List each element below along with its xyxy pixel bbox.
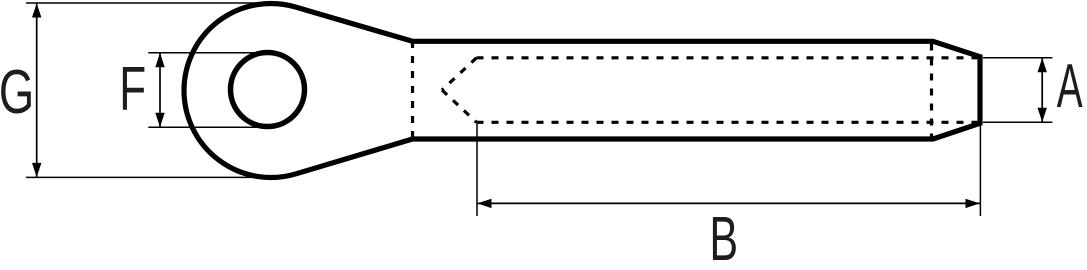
dimension B arrow right (966, 199, 980, 208)
dimension A line (1041, 58, 1043, 122)
dimension B extension line left (476, 122, 478, 216)
dimension A arrow up (1038, 58, 1047, 72)
dimension F arrow up (155, 53, 164, 67)
dimension B line (477, 202, 980, 204)
dimension B arrow left (477, 199, 491, 208)
dimension A extension line bottom (983, 121, 1052, 123)
hidden line: chamfer start (930, 44, 933, 140)
dimension A extension line top (983, 57, 1052, 59)
hidden line: drill cone upper (442, 58, 477, 90)
hidden line: drill cone lower (442, 90, 477, 122)
hidden line: bore bottom (477, 121, 979, 124)
dimension G arrow down (32, 163, 41, 177)
eye hole (231, 53, 305, 127)
dimension G extension line bottom (26, 176, 272, 178)
dimension F extension line bottom (148, 126, 267, 128)
dimension F line (159, 53, 161, 128)
dimension B extension line right (979, 123, 981, 216)
dimension G line (36, 3, 38, 177)
eye terminal body outline (184, 3, 980, 177)
svg-text:F: F (119, 55, 146, 124)
svg-text:B: B (709, 205, 738, 270)
svg-text:A: A (1057, 51, 1083, 121)
dimension G extension line top (26, 2, 272, 4)
hidden line: shank start junction (411, 41, 414, 143)
hidden line: bore top (477, 56, 979, 59)
dimension G arrow up (32, 3, 41, 17)
dimension F arrow down (155, 113, 164, 127)
svg-text:G: G (0, 57, 34, 127)
dimension A arrow down (1038, 108, 1047, 122)
dimension F extension line top (148, 52, 267, 54)
